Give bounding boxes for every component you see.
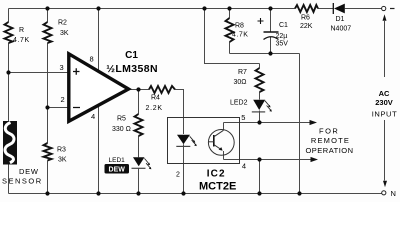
resistor R2 — [44, 22, 52, 43]
optocoupler LED — [177, 135, 190, 145]
resistor R6 — [295, 5, 318, 12]
optocoupler IC2 box — [168, 118, 240, 164]
svg-text:R4: R4 — [151, 95, 160, 102]
wire op-amp pin 3 input — [9, 72, 69, 74]
svg-text:INPUT: INPUT — [372, 110, 398, 119]
svg-text:R8: R8 — [235, 23, 244, 30]
node ground LED1 — [136, 191, 140, 195]
LED1 — [133, 157, 145, 166]
resistor R1 — [5, 22, 13, 43]
wire opto LED cathode to ground — [183, 144, 185, 193]
node top C1 — [268, 6, 272, 10]
wire bottom rail — [9, 193, 382, 195]
wire R8 column — [229, 9, 231, 54]
svg-text:D1: D1 — [336, 16, 345, 23]
wire R4 to optocoupler LED anode — [175, 90, 184, 135]
svg-text:N4007: N4007 — [331, 26, 352, 33]
op-amp IC1 half LM358N — [69, 54, 129, 122]
svg-text:SENSOR: SENSOR — [2, 177, 43, 186]
LED2 — [253, 100, 265, 110]
svg-text:3K: 3K — [58, 157, 67, 164]
node pin3 left — [6, 70, 10, 74]
wire pin4 emitter line — [224, 151, 314, 160]
wire top rail D1 to L terminal — [345, 8, 382, 10]
svg-text:4: 4 — [242, 162, 246, 171]
wire top rail left — [9, 8, 296, 10]
node ground emitter — [257, 191, 261, 195]
svg-text:30Ω: 30Ω — [234, 79, 247, 86]
wire R7 to LED2 — [259, 64, 261, 100]
svg-text:2: 2 — [61, 95, 65, 104]
svg-text:35V: 35V — [276, 41, 289, 48]
wire right vertical to ground — [299, 54, 301, 194]
dew sensor — [3, 121, 17, 165]
svg-text:4.7K: 4.7K — [13, 37, 30, 44]
node pin4 emitter — [257, 157, 261, 161]
wire capacitor column — [270, 9, 272, 54]
svg-text:3K: 3K — [60, 30, 69, 37]
node ground right — [297, 191, 301, 195]
wire LED2 cathode to pin5 node — [259, 111, 261, 123]
svg-text:½LM358N: ½LM358N — [106, 63, 158, 75]
svg-text:MCT2E: MCT2E — [199, 181, 236, 193]
terminal L — [382, 6, 386, 10]
resistor R3 — [44, 143, 52, 161]
arrow AC up — [383, 14, 387, 21]
node top R8 — [227, 6, 231, 10]
node op-amp output — [136, 87, 140, 91]
wire op-amp pin 8 — [98, 9, 100, 72]
node pin2 R2R3 — [45, 105, 49, 109]
wire R5 branch column — [138, 90, 140, 194]
node ground pin4 — [96, 191, 100, 195]
wire left column — [8, 9, 10, 194]
node ground opto LED — [181, 191, 185, 195]
wire supply tap to R7 — [205, 9, 260, 64]
DEW inverted label — [105, 164, 130, 174]
svg-text:AC: AC — [379, 89, 390, 98]
resistor R4 — [149, 86, 175, 93]
svg-text:4.7K: 4.7K — [232, 32, 248, 39]
wire op-amp output to R4 — [129, 89, 150, 91]
svg-text:4: 4 — [91, 112, 95, 121]
svg-text:22µ: 22µ — [276, 33, 288, 40]
svg-text:R6: R6 — [301, 15, 310, 22]
node top R2 — [45, 6, 49, 10]
node top supply tap — [202, 6, 206, 10]
node top pin8 — [96, 6, 100, 10]
svg-text:N: N — [391, 189, 396, 198]
wire AC live line — [384, 21, 386, 181]
arrow pin4 remote — [311, 157, 319, 162]
svg-text:C1: C1 — [279, 22, 288, 29]
svg-text:DEW: DEW — [109, 167, 126, 174]
wire R2 R3 column — [47, 9, 49, 194]
resistor R5 — [135, 114, 143, 136]
svg-text:R5: R5 — [117, 116, 126, 123]
diode D1 — [332, 3, 334, 14]
svg-text:3: 3 — [60, 63, 64, 72]
svg-text:FOR: FOR — [319, 127, 339, 136]
wire pin5 output line — [224, 123, 312, 130]
terminal N — [382, 191, 386, 195]
svg-text:LED1: LED1 — [109, 157, 126, 164]
resistor R8 — [226, 18, 234, 42]
svg-text:R3: R3 — [57, 147, 66, 154]
svg-text:R7: R7 — [238, 69, 247, 76]
arrow AC down — [383, 181, 387, 187]
wire top rail between R6 and D1 — [318, 8, 333, 10]
svg-text:REMOTE: REMOTE — [311, 136, 350, 145]
node C1 bottom — [268, 51, 272, 55]
svg-text:2: 2 — [176, 171, 180, 178]
capacitor C1 — [264, 31, 279, 33]
svg-text:2.2K: 2.2K — [146, 105, 163, 112]
svg-text:330 Ω: 330 Ω — [112, 126, 131, 133]
svg-text:C1: C1 — [125, 50, 138, 61]
wire op-amp pin 4 — [98, 104, 100, 194]
resistor R7 — [256, 68, 264, 92]
node pin5 LED2 — [257, 120, 261, 124]
svg-text:230V: 230V — [375, 98, 393, 107]
wire pin4 node to ground — [259, 160, 261, 194]
svg-text:R: R — [19, 27, 24, 34]
optocoupler phototransistor — [208, 130, 234, 156]
svg-text:8: 8 — [90, 55, 94, 64]
arrow pin5 remote — [310, 120, 318, 125]
svg-text:IC2: IC2 — [207, 169, 226, 180]
wire R8 C1 bottom rail — [230, 53, 300, 55]
svg-text:OPERATION: OPERATION — [305, 146, 353, 155]
node ground R3 — [45, 191, 49, 195]
svg-text:LED2: LED2 — [230, 100, 248, 107]
wire op-amp pin 2 input — [48, 107, 69, 109]
svg-text:22K: 22K — [300, 23, 313, 30]
svg-text:DEW: DEW — [19, 167, 39, 176]
svg-text:R2: R2 — [58, 20, 67, 27]
svg-text:5: 5 — [241, 113, 245, 122]
